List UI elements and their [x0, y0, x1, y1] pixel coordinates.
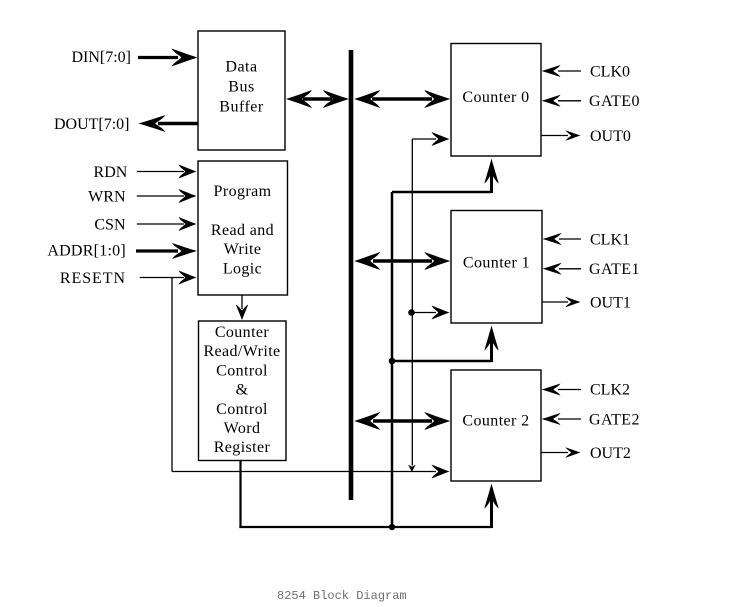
- svg-text:&: &: [236, 382, 249, 399]
- bus: internal data bus vertical line: [349, 50, 354, 500]
- wire WRN into U2: [137, 189, 197, 203]
- wire GATE2 into Counter 2: [542, 413, 582, 425]
- svg-text:Counter 0: Counter 0: [462, 89, 529, 106]
- svg-text:CSN: CSN: [94, 217, 126, 234]
- svg-text:Control: Control: [216, 401, 268, 418]
- wire control vertical x=392: [391, 192, 394, 527]
- wire bus to Counter 0 bidirectional: [354, 90, 450, 108]
- svg-text:Word: Word: [224, 420, 261, 437]
- wire RDN into U2: [137, 165, 197, 179]
- svg-text:Program: Program: [214, 183, 272, 200]
- svg-text:Counter 1: Counter 1: [463, 255, 530, 272]
- wire OUT2 out of Counter 2: [541, 447, 581, 458]
- block U6: Counter 2: [451, 370, 541, 481]
- svg-text:RESETN: RESETN: [60, 270, 126, 287]
- svg-text:DIN[7:0]: DIN[7:0]: [71, 49, 131, 66]
- wire DOUT[7:0] out of U1: [139, 115, 199, 132]
- wire ADDR[1:0] bus into U2: [136, 243, 197, 259]
- junction on control vertical at Counter 1 branch: [389, 358, 396, 365]
- block U1: Data Bus Buffer: [198, 31, 285, 150]
- wire GATE0 into Counter 0: [542, 95, 582, 107]
- svg-text:CLK0: CLK0: [590, 63, 630, 80]
- block U3: Counter Read/Write Control and Control Word Register: [199, 321, 287, 461]
- block U4: Counter 0: [451, 44, 541, 157]
- svg-text:CLK1: CLK1: [590, 231, 630, 248]
- svg-text:CLK2: CLK2: [590, 382, 630, 399]
- wire bus to Counter 2 bidirectional: [354, 412, 450, 430]
- wire U1 to bus bidirectional: [286, 90, 349, 108]
- wire CLK1 into Counter 1: [543, 233, 582, 245]
- svg-text:GATE0: GATE0: [589, 93, 640, 110]
- wire control riser into Counter 2 bottom: [484, 484, 498, 529]
- wire CLK0 into Counter 0: [542, 65, 582, 77]
- svg-text:Read/Write: Read/Write: [203, 343, 280, 360]
- wire control word register output down: [239, 461, 491, 529]
- wire into Counter 1 lower-left input: [412, 306, 449, 320]
- wire control feed into Counter 1 bottom: [392, 326, 499, 363]
- wire DIN[7:0] into U1: [138, 49, 198, 67]
- svg-text:OUT1: OUT1: [590, 295, 631, 312]
- svg-text:Buffer: Buffer: [219, 99, 264, 116]
- svg-text:GATE1: GATE1: [589, 261, 640, 278]
- wire U2 to U3 arrow: [236, 295, 248, 320]
- svg-text:WRN: WRN: [88, 189, 126, 206]
- svg-text:8254 Block Diagram: 8254 Block Diagram: [277, 589, 407, 603]
- svg-text:ADDR[1:0]: ADDR[1:0]: [47, 242, 126, 259]
- wire OUT0 out of Counter 0: [541, 130, 581, 141]
- svg-text:Counter 2: Counter 2: [462, 413, 529, 430]
- wire CSN into U2: [137, 217, 197, 231]
- junction on control line at x=392: [389, 524, 395, 530]
- svg-text:Write: Write: [224, 241, 262, 258]
- svg-text:Read and: Read and: [211, 222, 274, 239]
- svg-text:OUT0: OUT0: [590, 128, 631, 145]
- block U2: Program Read and Write Logic: [198, 161, 288, 295]
- wire bus to Counter 1 bidirectional: [354, 252, 450, 270]
- svg-text:OUT2: OUT2: [590, 445, 631, 462]
- wire reset distribution vertical x=412: [408, 139, 416, 472]
- svg-text:Register: Register: [214, 439, 271, 456]
- wire RESETN into U2: [140, 271, 197, 285]
- wire OUT1 out of Counter 1: [542, 297, 581, 308]
- svg-text:Bus: Bus: [228, 79, 254, 96]
- wire into Counter 0 lower-left input: [412, 132, 449, 146]
- wire GATE1 into Counter 1: [543, 263, 582, 275]
- svg-text:DOUT[7:0]: DOUT[7:0]: [54, 116, 130, 133]
- svg-text:Counter: Counter: [215, 324, 270, 341]
- block U5: Counter 1: [451, 211, 542, 324]
- wire control feed into Counter 0 bottom: [392, 159, 499, 194]
- svg-text:Logic: Logic: [223, 260, 262, 277]
- svg-text:GATE2: GATE2: [589, 412, 640, 429]
- svg-text:RDN: RDN: [94, 164, 128, 181]
- wire CLK2 into Counter 2: [542, 384, 582, 396]
- svg-text:Data: Data: [225, 59, 257, 76]
- junction on x=412 wire at Counter 1 branch: [408, 309, 415, 316]
- svg-text:Control: Control: [216, 362, 268, 379]
- wire RESETN branch down the left side: [172, 278, 450, 479]
